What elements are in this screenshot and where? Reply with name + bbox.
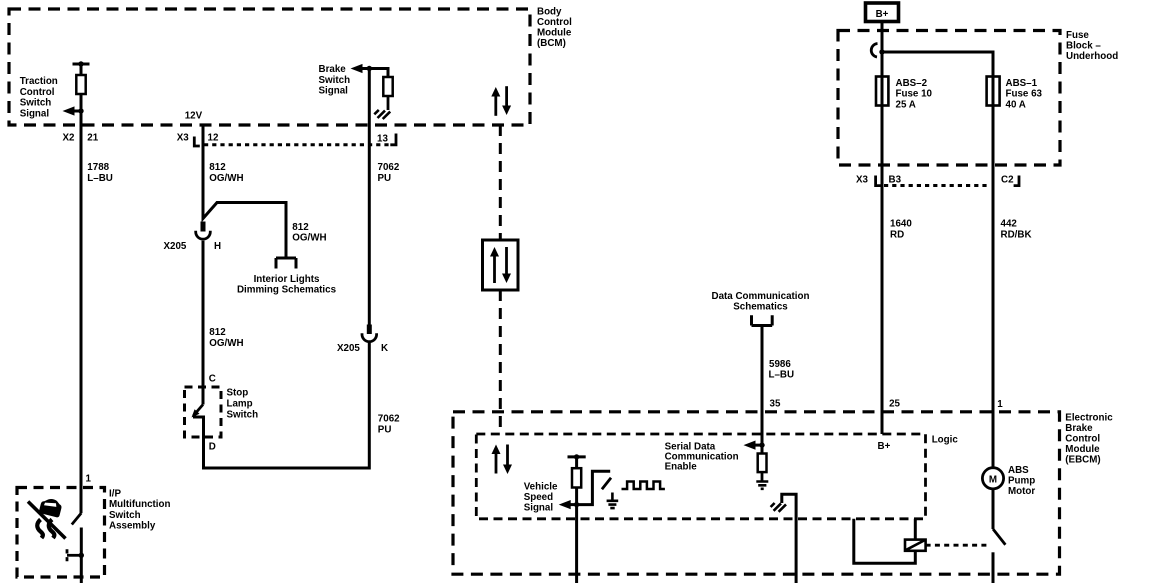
brake resistor branch — [369, 69, 388, 78]
wire traction arrow stub — [73, 110, 81, 113]
wire 1640 down — [881, 106, 884, 434]
svg-text:Electronic: Electronic — [1065, 412, 1113, 423]
svg-text:L–BU: L–BU — [769, 370, 795, 381]
serial ground stub — [761, 472, 764, 481]
svg-text:Schematics: Schematics — [733, 301, 788, 312]
svg-text:812: 812 — [209, 327, 226, 338]
data comm bracket — [752, 315, 773, 325]
svg-text:Body: Body — [537, 6, 562, 17]
X3 dotted line fuse — [884, 184, 990, 187]
junction brake switch signal — [367, 66, 372, 71]
wire bus to ABS-1 — [882, 52, 993, 76]
arrowhead up box — [490, 247, 499, 257]
VSS switch blade — [602, 478, 611, 490]
Fuse Block box — [838, 31, 1060, 166]
svg-text:1640: 1640 — [890, 218, 912, 229]
svg-text:Stop: Stop — [227, 388, 249, 399]
junction serial data — [759, 442, 764, 447]
down arrow BCM — [505, 86, 508, 107]
resistor VSS — [572, 468, 581, 487]
svg-text:Fuse: Fuse — [1066, 30, 1089, 41]
svg-text:Fuse 63: Fuse 63 — [1006, 89, 1043, 100]
arrowhead stop lamp blade — [192, 409, 200, 417]
svg-text:Brake: Brake — [1065, 423, 1093, 434]
brake arrow stub — [361, 67, 369, 70]
relay top wire — [914, 519, 917, 540]
I/P Multifunction box — [17, 488, 105, 578]
svg-text:Signal: Signal — [319, 86, 349, 97]
svg-text:ABS–1: ABS–1 — [1006, 78, 1038, 89]
svg-text:B+: B+ — [876, 9, 889, 20]
VSS wire upper — [575, 457, 578, 468]
wire 812 from X3-12 — [203, 125, 286, 258]
square wave — [622, 482, 665, 490]
svg-text:442: 442 — [1001, 218, 1018, 229]
svg-text:Control: Control — [20, 87, 55, 98]
svg-text:1788: 1788 — [87, 162, 109, 173]
svg-text:Traction: Traction — [20, 76, 58, 87]
VSS wire lower — [575, 488, 578, 583]
resistor traction — [76, 75, 85, 94]
svg-text:PU: PU — [378, 173, 392, 184]
resistor brake — [383, 77, 392, 96]
svg-text:C: C — [209, 374, 216, 385]
svg-text:RD: RD — [890, 230, 904, 241]
earth ground serial — [756, 482, 768, 489]
EBCM box — [453, 412, 1060, 574]
up arrow box — [493, 254, 496, 283]
arrow serial data — [744, 441, 756, 450]
svg-text:12V: 12V — [185, 111, 203, 122]
svg-text:7062: 7062 — [378, 162, 400, 173]
svg-text:L–BU: L–BU — [87, 173, 113, 184]
svg-text:Logic: Logic — [932, 434, 959, 445]
connector box double arrow — [483, 240, 519, 290]
traction icon skid left — [37, 520, 43, 539]
svg-text:(BCM): (BCM) — [537, 38, 566, 49]
svg-text:Brake: Brake — [319, 64, 347, 75]
arrowhead up BCM — [491, 87, 500, 97]
svg-text:ABS–2: ABS–2 — [896, 78, 928, 89]
wire B+ down — [881, 22, 884, 77]
resistor traction top bar — [73, 63, 90, 66]
svg-text:21: 21 — [87, 132, 98, 143]
relay coil box — [905, 540, 926, 551]
arrowhead down logic — [503, 465, 512, 475]
svg-text:Switch: Switch — [20, 98, 52, 109]
dashed wire to logic — [499, 290, 502, 434]
svg-text:Signal: Signal — [20, 108, 50, 119]
svg-text:Vehicle: Vehicle — [524, 482, 558, 493]
svg-text:812: 812 — [292, 222, 309, 233]
fuse ABS-1 — [992, 76, 995, 106]
motor bottom wire — [992, 552, 995, 583]
svg-text:RD/BK: RD/BK — [1001, 230, 1032, 241]
svg-text:X3: X3 — [177, 133, 190, 144]
svg-text:12: 12 — [208, 133, 219, 144]
svg-text:Data Communication: Data Communication — [712, 291, 810, 302]
svg-text:25 A: 25 A — [896, 99, 916, 110]
arrowhead down BCM — [502, 106, 511, 116]
wire 442 down — [992, 106, 995, 468]
svg-text:Motor: Motor — [1008, 486, 1035, 497]
svg-text:M: M — [989, 475, 997, 486]
VSS arrow stub — [570, 503, 577, 506]
chassis ground brake — [374, 110, 390, 119]
traction icon car — [39, 497, 63, 518]
wire traction vertical — [80, 64, 83, 513]
logic down arrow — [506, 445, 509, 468]
arrowhead up logic — [492, 445, 501, 455]
svg-text:1: 1 — [86, 473, 92, 484]
X3 bracket left fuse — [876, 176, 881, 186]
svg-text:Switch: Switch — [319, 75, 351, 86]
svg-text:X3: X3 — [856, 175, 869, 186]
svg-text:X2: X2 — [63, 132, 76, 143]
switch blade I/P — [72, 513, 82, 525]
VSS right branch — [577, 471, 611, 504]
svg-text:Signal: Signal — [524, 502, 554, 513]
svg-text:H: H — [214, 241, 221, 252]
resistor serial — [761, 445, 764, 453]
svg-text:X205: X205 — [337, 343, 360, 354]
Logic box — [476, 434, 925, 519]
X3 bracket left — [194, 137, 200, 147]
svg-text:25: 25 — [889, 398, 900, 409]
arrow VSS — [559, 500, 571, 509]
svg-text:Speed: Speed — [524, 492, 553, 503]
svg-text:Control: Control — [537, 17, 572, 28]
stop lamp contact — [193, 343, 369, 468]
svg-text:Dimming Schematics: Dimming Schematics — [237, 285, 337, 296]
svg-text:5986: 5986 — [769, 359, 791, 370]
svg-text:Module: Module — [537, 28, 572, 39]
bracket interior lights — [276, 258, 296, 269]
junction I/P contact — [79, 553, 84, 558]
X3 bracket right — [390, 134, 396, 145]
dotted link relay to switch — [926, 544, 989, 547]
X205 pin H — [201, 222, 206, 232]
wire 5986 — [761, 326, 764, 446]
svg-text:Module: Module — [1065, 444, 1100, 455]
X205 pin K — [367, 325, 372, 335]
traction icon slash — [28, 502, 66, 539]
svg-text:812: 812 — [209, 162, 226, 173]
svg-text:OG/WH: OG/WH — [209, 173, 243, 184]
svg-text:OG/WH: OG/WH — [292, 232, 326, 243]
BCM dashed exit wire — [499, 125, 502, 240]
svg-text:Multifunction: Multifunction — [109, 499, 170, 510]
relay loop wire — [854, 519, 916, 563]
wire 7062 upper — [368, 69, 371, 325]
svg-text:X205: X205 — [164, 241, 187, 252]
switch blade stop lamp — [194, 405, 204, 416]
junction VSS arrow — [574, 502, 579, 507]
svg-text:1: 1 — [997, 399, 1003, 410]
X3 connector dotted line — [204, 143, 392, 146]
svg-text:Switch: Switch — [227, 410, 259, 421]
chassis ground hatch — [771, 503, 786, 512]
svg-text:B3: B3 — [889, 175, 902, 186]
svg-text:(EBCM): (EBCM) — [1065, 455, 1100, 466]
svg-text:Underhood: Underhood — [1066, 51, 1118, 62]
junction traction arrow — [78, 108, 83, 113]
fuse ABS-2 — [881, 76, 884, 106]
up arrow BCM — [494, 94, 497, 116]
svg-text:Control: Control — [1065, 434, 1100, 445]
svg-text:K: K — [381, 343, 388, 354]
traction icon skid right — [49, 520, 55, 539]
motor circle — [982, 468, 1003, 489]
svg-text:ABS: ABS — [1008, 465, 1029, 476]
relay diagonal — [906, 540, 925, 550]
logic up arrow — [495, 451, 498, 474]
junction splice S bus — [879, 49, 884, 54]
motor lower wire — [992, 489, 995, 529]
down arrow box — [505, 247, 508, 275]
svg-text:PU: PU — [378, 425, 392, 436]
junction VSS top — [574, 454, 579, 459]
contact ticks I/P — [66, 549, 69, 561]
arrow traction — [63, 106, 75, 115]
B+ terminal box — [866, 3, 899, 22]
svg-text:Interior Lights: Interior Lights — [254, 274, 320, 285]
serial data arrow stub — [754, 444, 762, 447]
svg-text:7062: 7062 — [378, 414, 400, 425]
arrow brake — [351, 64, 363, 73]
contact I/P — [67, 554, 81, 557]
svg-text:Pump: Pump — [1008, 476, 1035, 487]
earth ground VSS — [607, 493, 619, 509]
chassis hook wire — [782, 494, 796, 583]
svg-text:OG/WH: OG/WH — [209, 338, 243, 349]
svg-text:C2: C2 — [1001, 175, 1014, 186]
svg-text:Enable: Enable — [665, 461, 698, 472]
Stop Lamp Switch box — [185, 387, 222, 437]
junction traction resistor top — [78, 61, 83, 66]
splice arc — [871, 44, 877, 58]
wire I/P lower — [80, 528, 83, 583]
svg-text:Lamp: Lamp — [227, 399, 253, 410]
svg-text:Block –: Block – — [1066, 40, 1101, 51]
svg-text:40 A: 40 A — [1006, 99, 1026, 110]
motor switch blade — [993, 529, 1005, 545]
C2 bracket right fuse — [1014, 176, 1019, 186]
svg-text:Assembly: Assembly — [109, 521, 156, 532]
wire 812 to stop lamp switch — [202, 241, 205, 405]
svg-text:13: 13 — [377, 134, 388, 145]
VSS top bar — [568, 455, 586, 458]
svg-text:I/P: I/P — [109, 489, 121, 500]
svg-text:35: 35 — [770, 398, 781, 409]
resistor brake ground stub — [387, 96, 390, 110]
svg-text:Switch: Switch — [109, 510, 141, 521]
svg-text:D: D — [209, 442, 216, 453]
BCM box — [9, 9, 530, 125]
X205 arc K — [362, 333, 377, 342]
arrowhead down box — [502, 274, 511, 284]
svg-text:B+: B+ — [878, 441, 891, 452]
svg-text:Fuse 10: Fuse 10 — [896, 89, 933, 100]
X205 arc H — [196, 231, 211, 240]
